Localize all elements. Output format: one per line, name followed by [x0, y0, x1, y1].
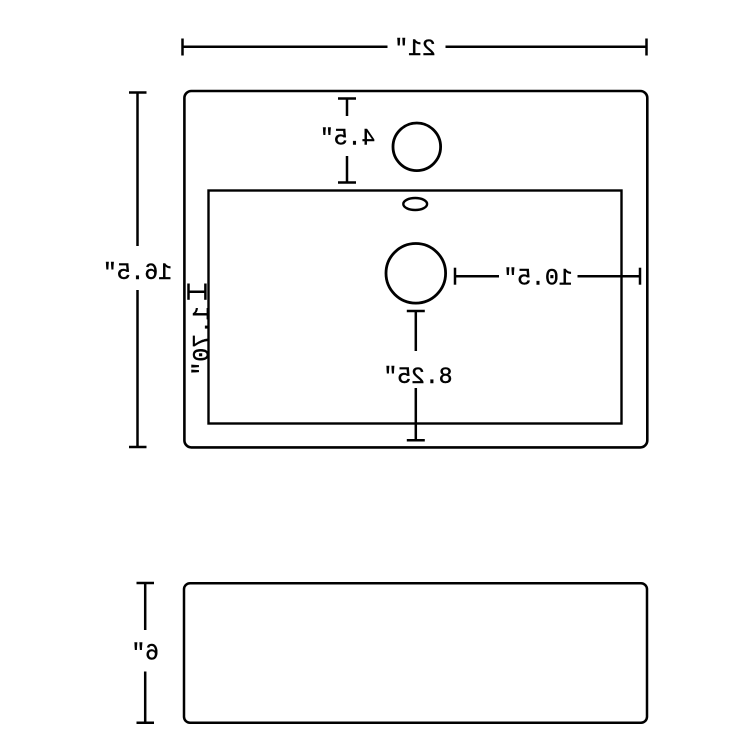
- dimension 16.5" line: [129, 93, 147, 448]
- dimension 4.5" line: [338, 99, 356, 183]
- svg-text:6": 6": [131, 641, 159, 667]
- dimension 1.70" tick symbol: [189, 284, 206, 300]
- svg-text:21": 21": [394, 36, 435, 62]
- dimension 10.5" line: [455, 268, 640, 285]
- dimension 6" line: [137, 583, 155, 723]
- svg-text:8.25": 8.25": [383, 364, 452, 390]
- svg-text:4.5": 4.5": [320, 125, 375, 151]
- sink basin inner rectangle: [209, 191, 622, 424]
- dimension 8.25" line: [407, 311, 425, 440]
- svg-text:10.5": 10.5": [503, 266, 572, 292]
- svg-text:16.5": 16.5": [103, 260, 172, 286]
- dimension 21" line: [183, 39, 647, 56]
- sink outer rim (top view): [184, 91, 647, 447]
- faucet hole: [393, 123, 441, 171]
- sink side profile (bottom view): [184, 583, 647, 723]
- overflow hole: [403, 198, 427, 210]
- drain hole: [386, 243, 446, 303]
- svg-text:1.70": 1.70": [189, 306, 215, 375]
